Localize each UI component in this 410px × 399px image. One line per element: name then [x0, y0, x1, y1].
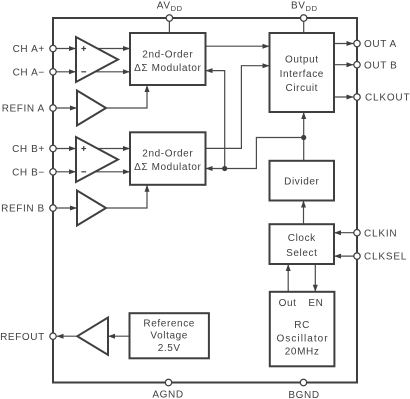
wire CH B- input	[57, 169, 77, 174]
wire CLKIN to clock select	[334, 230, 354, 235]
pin OUT B	[354, 61, 360, 67]
pin CH A+	[50, 45, 56, 51]
pin REFOUT	[50, 333, 56, 339]
op-amp B plus label	[81, 146, 86, 151]
svg-text:CLKOUT: CLKOUT	[365, 93, 410, 104]
reference output buffer	[77, 318, 108, 355]
wire CH B+ input	[57, 146, 77, 151]
pin AVDD	[166, 15, 172, 21]
svg-text:RC: RC	[294, 320, 310, 331]
svg-text:Circuit: Circuit	[286, 83, 319, 94]
ground pin AGND	[165, 379, 171, 385]
pin REFIN A	[50, 105, 56, 111]
svg-text:Out: Out	[279, 298, 297, 309]
pin BVDD	[301, 15, 307, 21]
svg-text:EN: EN	[308, 298, 323, 309]
wire modulator B to output interface	[206, 63, 270, 148]
svg-text:Divider: Divider	[284, 176, 319, 187]
op-amp A plus label	[81, 46, 86, 51]
svg-text:REFOUT: REFOUT	[0, 332, 45, 343]
outer border	[53, 18, 357, 383]
wire CH A- input	[57, 69, 77, 74]
wire CH A+ input	[57, 46, 77, 51]
wire buffer to REFOUT	[57, 334, 78, 339]
pin CH B-	[50, 169, 56, 175]
op-amp A minus label	[81, 71, 86, 73]
pin REFIN B	[50, 205, 56, 211]
op-amp A	[76, 37, 118, 82]
svg-text:Clock: Clock	[288, 233, 316, 244]
svg-text:CLKSEL: CLKSEL	[364, 252, 407, 263]
wire buffer B to modulator B	[106, 185, 150, 208]
wire divider to output interface	[301, 112, 306, 161]
block reference voltage	[130, 313, 209, 358]
wire amp B out bottom	[90, 169, 130, 174]
svg-text:REFIN B: REFIN B	[1, 204, 45, 215]
op-amp B	[76, 137, 118, 182]
wire clock select to divider	[301, 201, 306, 225]
svg-text:Interface: Interface	[280, 69, 324, 80]
wire BVDD stub	[303, 18, 305, 33]
wire output interface to OUT A	[334, 41, 354, 46]
svg-text:OUT A: OUT A	[364, 39, 397, 50]
svg-text:20MHz: 20MHz	[285, 347, 320, 358]
wire amp A out top	[90, 46, 130, 51]
pin OUT A	[354, 40, 360, 46]
svg-text:Select: Select	[286, 248, 317, 259]
wire reference voltage to buffer	[108, 334, 130, 339]
svg-text:2nd-Order: 2nd-Order	[142, 49, 193, 60]
svg-text:ΔΣ Modulator: ΔΣ Modulator	[134, 162, 201, 173]
wire clock select to oscillator EN	[313, 264, 318, 292]
svg-text:Output: Output	[285, 55, 319, 66]
pin CH A-	[50, 69, 56, 75]
ground pin BGND	[300, 379, 306, 385]
svg-text:CLKIN: CLKIN	[364, 228, 397, 239]
block output interface circuit U3	[270, 33, 335, 112]
svg-text:AGND: AGND	[152, 389, 183, 399]
wire CLKSEL to clock select	[334, 254, 354, 259]
svg-text:BVDD: BVDD	[291, 1, 318, 14]
pin CLKSEL	[354, 253, 360, 259]
block modulator B	[130, 132, 206, 185]
block modulator A	[130, 33, 206, 85]
svg-text:AVDD: AVDD	[157, 1, 183, 14]
svg-text:CH A−: CH A−	[13, 67, 45, 78]
pin CH B+	[50, 145, 56, 151]
junction on feedback line	[222, 166, 227, 171]
wire AVDD stub	[168, 18, 170, 33]
svg-text:Voltage: Voltage	[150, 331, 188, 342]
wire output interface to OUT B	[334, 62, 354, 67]
wire REFIN A input	[57, 106, 78, 111]
wire clock feedback to modulator B	[206, 138, 304, 172]
buffer A	[77, 91, 106, 126]
svg-text:Reference: Reference	[143, 319, 195, 330]
wire amp A out bottom	[90, 69, 130, 74]
block RC oscillator	[270, 292, 335, 367]
block clock select	[270, 224, 335, 264]
svg-text:CH B+: CH B+	[12, 144, 45, 155]
svg-text:2.5V: 2.5V	[158, 343, 181, 354]
buffer B	[77, 191, 106, 226]
svg-text:OUT B: OUT B	[364, 60, 397, 71]
svg-text:CH A+: CH A+	[13, 44, 45, 55]
svg-text:BGND: BGND	[288, 390, 319, 399]
pin CLKIN	[354, 230, 360, 236]
svg-text:2nd-Order: 2nd-Order	[142, 149, 193, 160]
wire modulator A to output interface	[206, 44, 270, 49]
wire oscillator out to clock select	[286, 264, 291, 292]
wire output interface to CLKOUT	[334, 95, 354, 100]
wire amp B out top	[90, 146, 130, 151]
block divider	[270, 161, 335, 201]
wire REFIN B input	[57, 206, 78, 211]
op-amp B minus label	[81, 171, 86, 173]
svg-text:CH B−: CH B−	[12, 167, 45, 178]
wire buffer A to modulator A	[106, 85, 150, 108]
junction on divider line	[301, 135, 306, 140]
svg-text:ΔΣ Modulator: ΔΣ Modulator	[134, 63, 201, 74]
svg-text:REFIN A: REFIN A	[2, 104, 45, 115]
svg-text:Oscillator: Oscillator	[277, 333, 329, 344]
wire clock feedback to modulator A	[206, 68, 225, 168]
pin CLKOUT	[354, 94, 360, 100]
